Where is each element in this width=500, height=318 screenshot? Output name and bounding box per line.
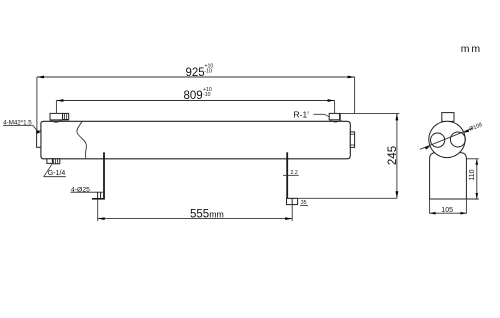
bottom drain fitting G-1/4 [47, 159, 53, 164]
left end boss (M42 ports) [37, 131, 41, 147]
svg-text:-10: -10 [205, 69, 213, 75]
right foot [287, 198, 298, 204]
svg-text:809: 809 [184, 90, 203, 102]
svg-text:4-Ø25: 4-Ø25 [71, 187, 90, 194]
inlet fitting collar [51, 120, 61, 122]
side view body [430, 153, 467, 199]
side view left tube circle [431, 133, 445, 147]
side view base line [430, 198, 479, 200]
top-left inlet fitting [50, 113, 63, 120]
outlet fitting collar [330, 120, 342, 122]
R-1 outlet fitting [329, 113, 340, 119]
svg-text:-10: -10 [203, 92, 211, 98]
left support leg [103, 152, 105, 198]
side view stub fitting [442, 113, 454, 122]
dimension 809 line [56, 101, 334, 114]
right end boss [350, 132, 354, 148]
dimension 245 [340, 113, 399, 198]
svg-text:245: 245 [387, 146, 399, 165]
svg-text:110: 110 [469, 169, 476, 180]
shell weld break line [77, 121, 86, 158]
dimension 110 [466, 159, 478, 199]
inlet fitting nut [63, 113, 69, 119]
side view shell circle [429, 121, 465, 157]
left foot [71, 191, 103, 193]
dimension 105 [430, 199, 467, 214]
svg-text:mm: mm [461, 43, 482, 55]
right support leg [286, 152, 288, 198]
inlet fitting base line [50, 119, 69, 121]
dimension 555 [98, 199, 293, 221]
right foot 245 extension line [287, 197, 397, 199]
svg-text:R-1′: R-1′ [294, 110, 310, 120]
svg-text:555mm: 555mm [190, 209, 224, 221]
side view right tube circle [450, 132, 465, 147]
svg-text:G-1/4: G-1/4 [48, 170, 66, 177]
diameter callout line [420, 128, 473, 149]
svg-text:925: 925 [186, 67, 205, 79]
right boss ticks [350, 133, 354, 135]
heat exchanger shell body [41, 121, 350, 159]
dimension 925 line [37, 77, 355, 131]
svg-text:105: 105 [441, 207, 453, 214]
